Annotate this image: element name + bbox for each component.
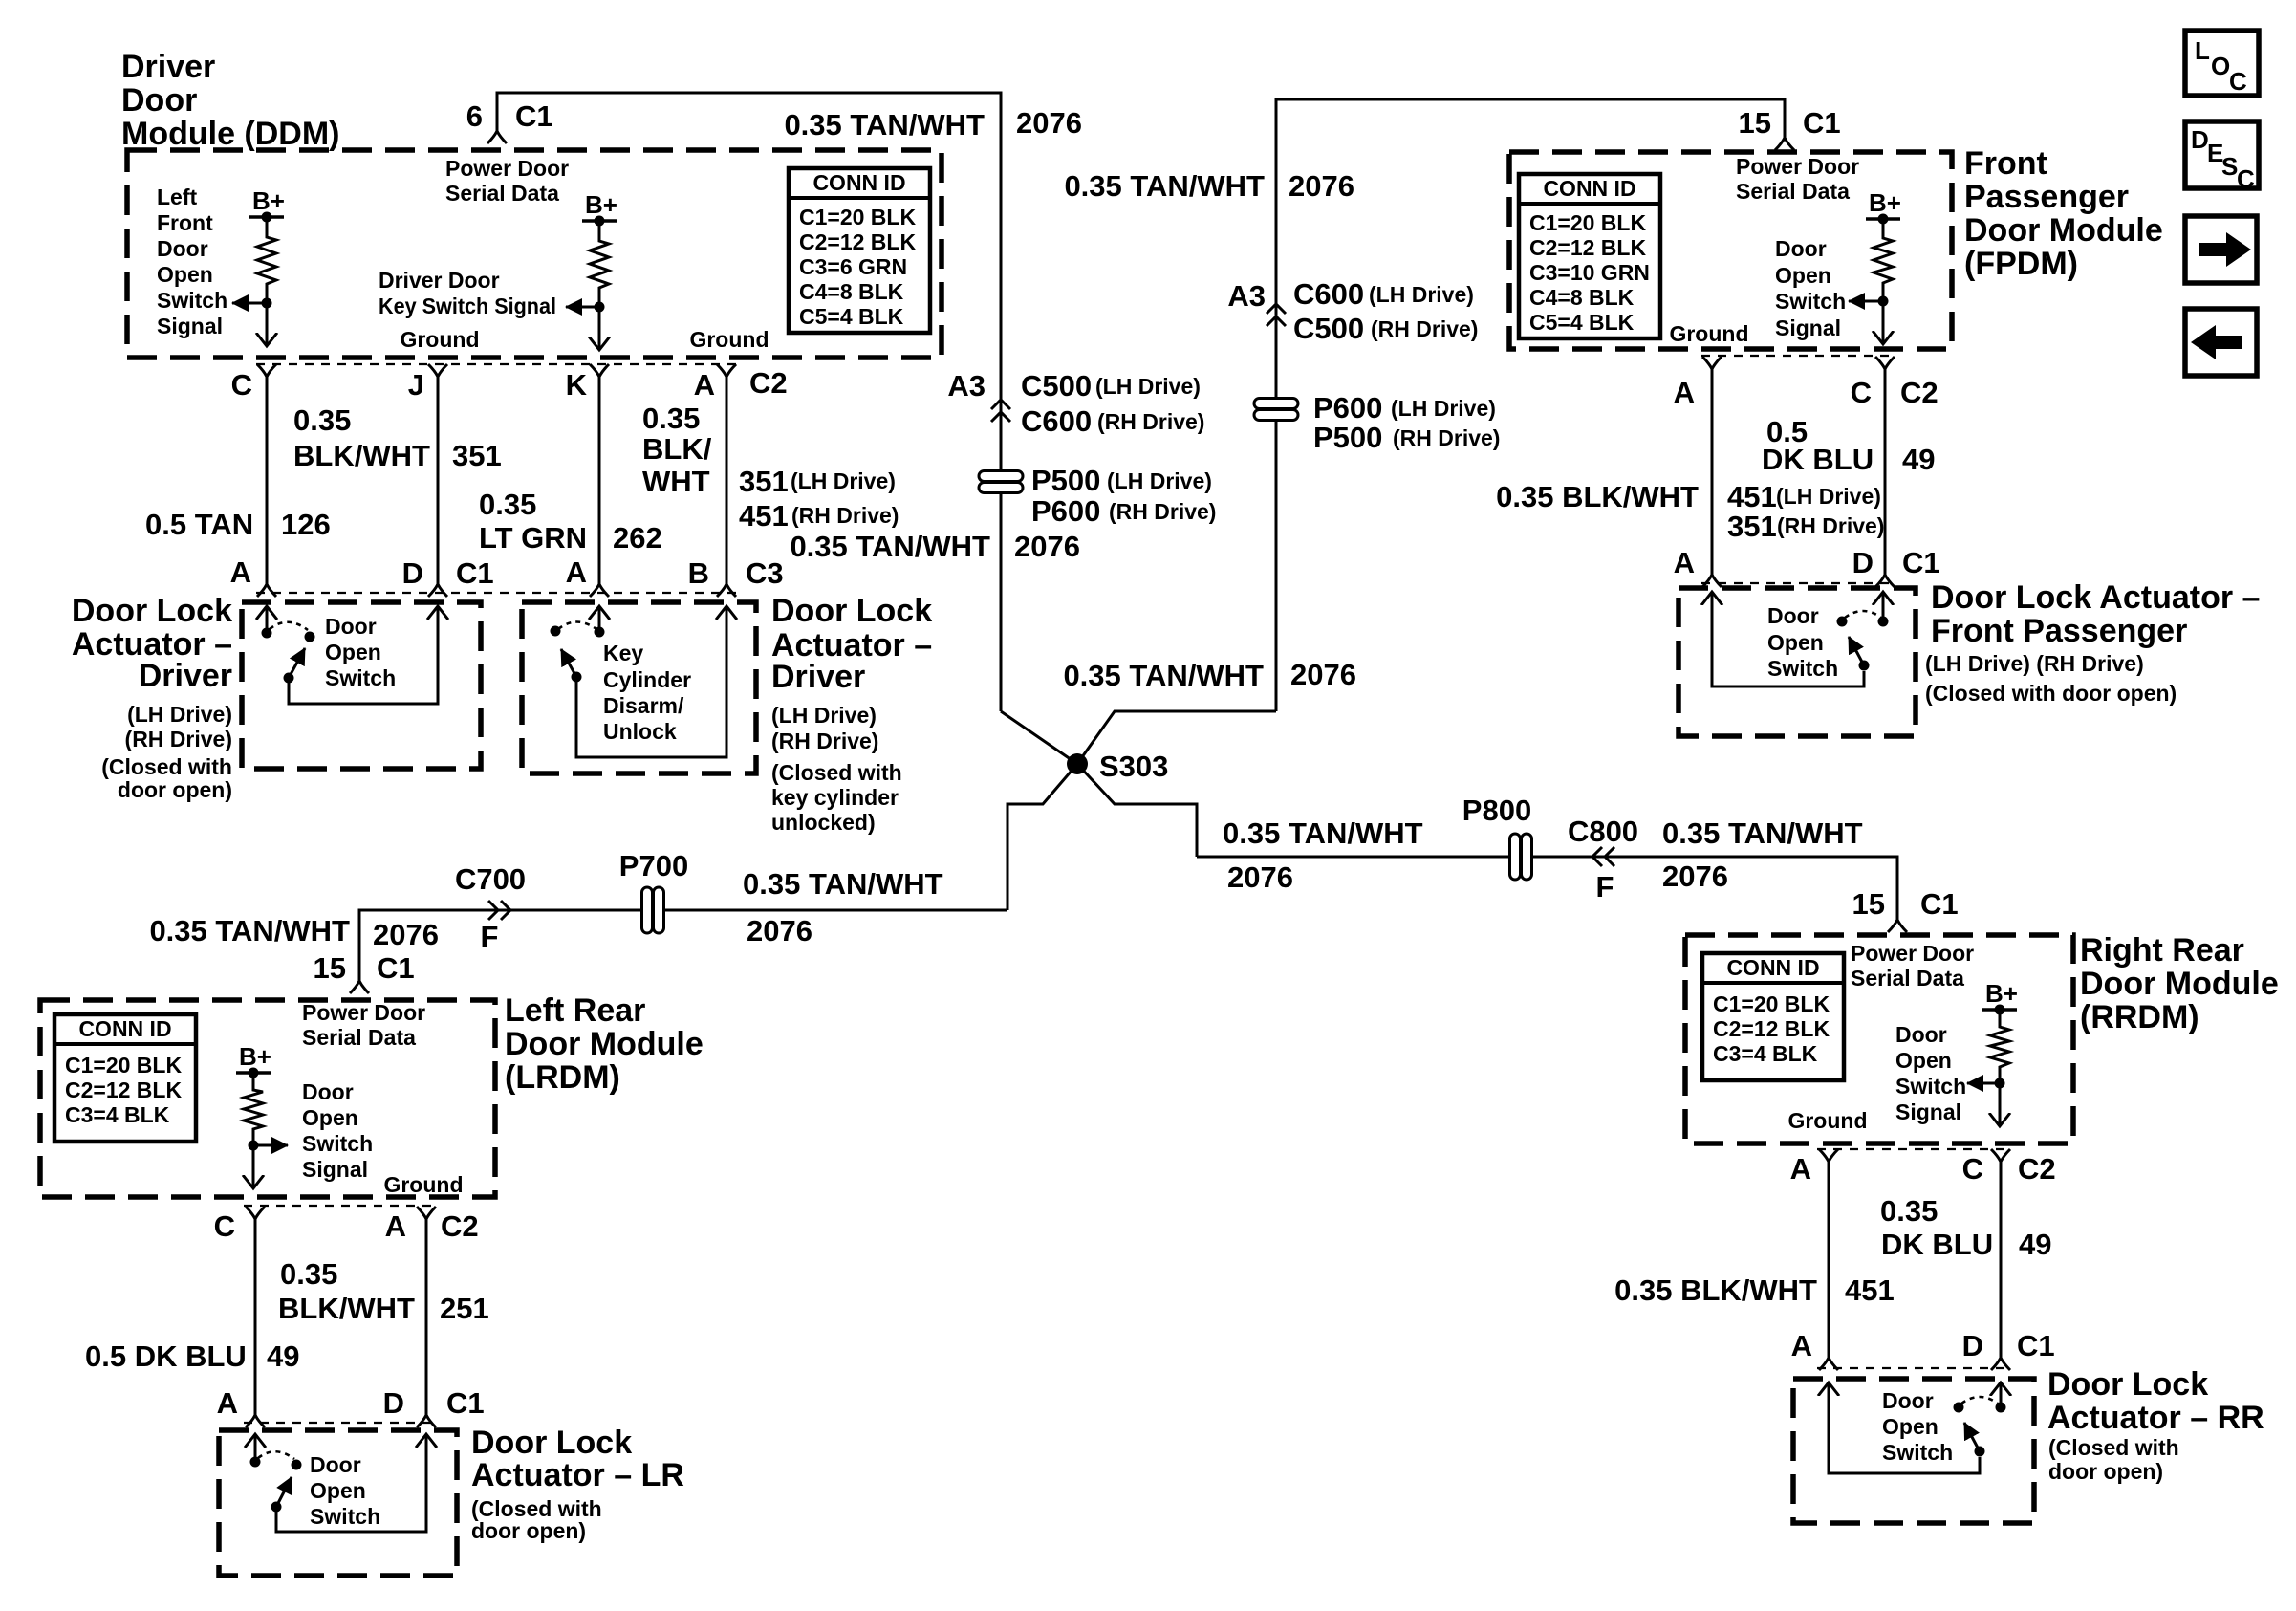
svg-text:0.35 TAN/WHT: 0.35 TAN/WHT (1223, 816, 1423, 850)
svg-text:CONN ID: CONN ID (1543, 176, 1635, 201)
B+ power symbol and pull-up resistor (DDM door open switch pull-up) (232, 186, 285, 346)
fork (top) at A-B (717, 364, 736, 377)
fork (bottom) at J-D (428, 584, 447, 597)
label: Driver Door Module (DDM) title (121, 49, 340, 152)
svg-text:351: 351 (739, 465, 789, 498)
svg-text:S303: S303 (1099, 750, 1168, 783)
svg-text:unlocked): unlocked) (771, 810, 876, 835)
wire: LRDM connector wire C-A x=267 (254, 1219, 257, 1415)
svg-text:351: 351 (452, 439, 502, 472)
svg-text:2076: 2076 (1014, 530, 1080, 563)
wire: FPDM pin 15 C1 serial data to S303 (1276, 99, 1785, 711)
connector fork at DDM pin 6 C1 (487, 131, 507, 143)
svg-text:Front: Front (1964, 145, 2047, 182)
svg-text:0.35 TAN/WHT: 0.35 TAN/WHT (790, 530, 990, 563)
svg-text:Door Module: Door Module (2080, 966, 2279, 1002)
svg-text:Unlock: Unlock (603, 719, 677, 744)
svg-text:O: O (2211, 52, 2230, 80)
label: Front Passenger Door Module (FPDM) title (1964, 145, 2163, 282)
module FPDM: Front Passenger Door Module dashed box (1509, 152, 1952, 349)
fork (bottom) at K-A (590, 584, 609, 597)
svg-text:C5=4 BLK: C5=4 BLK (799, 304, 904, 329)
svg-text:C3=4 BLK: C3=4 BLK (65, 1102, 170, 1127)
svg-text:49: 49 (267, 1339, 299, 1373)
connector region (FPDM C1/C2) fine dashed lines (1701, 356, 1896, 583)
svg-text:C: C (1962, 1152, 1983, 1186)
svg-text:D: D (1852, 546, 1874, 579)
svg-text:C1: C1 (1902, 546, 1940, 579)
svg-text:C1=20 BLK: C1=20 BLK (65, 1053, 182, 1078)
label: (LH Drive)(RH Drive)(Closed with key cylinder unlocked) (771, 703, 902, 835)
module LRDM: Left Rear Door Module dashed box (40, 1000, 495, 1197)
label: Door Open Switch Signal (RRDM) (1895, 1022, 1966, 1124)
LOC legend box (2185, 31, 2259, 96)
svg-text:0.35 TAN/WHT: 0.35 TAN/WHT (149, 914, 350, 947)
in-line connector P500/P600 grommet symbol (left wire) (979, 471, 1023, 493)
fork (top) at C-A (257, 364, 276, 377)
svg-text:Door: Door (1882, 1388, 1934, 1413)
svg-text:door open): door open) (2048, 1459, 2163, 1484)
svg-text:DK BLU: DK BLU (1881, 1228, 1993, 1261)
svg-text:126: 126 (281, 508, 331, 541)
svg-text:Switch: Switch (310, 1504, 380, 1529)
svg-text:Serial Data: Serial Data (1851, 966, 1964, 991)
svg-text:A: A (694, 368, 715, 402)
svg-text:Front Passenger: Front Passenger (1931, 613, 2187, 649)
svg-text:C: C (231, 368, 252, 402)
label: Door Lock Actuator - Front Passenger title (1931, 579, 2260, 649)
svg-text:key cylinder: key cylinder (771, 785, 899, 810)
wire label 0.35 TAN/WHT 2076 (mid, near S303) (790, 530, 1080, 563)
svg-text:A: A (217, 1386, 238, 1420)
svg-text:451: 451 (739, 499, 789, 533)
wire: FPDM connector wire A-A x=1791 (1711, 369, 1714, 575)
svg-text:F: F (1596, 870, 1614, 903)
svg-text:Door: Door (157, 236, 208, 261)
svg-text:A: A (1791, 1329, 1812, 1362)
svg-text:C: C (214, 1209, 235, 1243)
label: Door Open Switch (FPDM actuator) (1767, 603, 1838, 681)
svg-text:C500: C500 (1293, 312, 1364, 345)
svg-text:(LRDM): (LRDM) (505, 1059, 620, 1096)
component: Door Lock Actuator - LR dashed box (219, 1430, 457, 1576)
svg-text:(LH Drive): (LH Drive) (1107, 468, 1212, 493)
svg-text:C5=4 BLK: C5=4 BLK (1529, 310, 1635, 335)
svg-text:Open: Open (157, 262, 213, 287)
svg-text:C2=12 BLK: C2=12 BLK (1713, 1016, 1830, 1041)
svg-text:A: A (230, 555, 251, 589)
connector region (DDM C1/C2/C3 in-line) fine dashed lines (256, 364, 738, 593)
svg-text:Switch: Switch (157, 288, 227, 313)
svg-text:Serial Data: Serial Data (1736, 179, 1850, 204)
label: (LH Drive)(RH Drive)(Closed with door open) (101, 702, 232, 802)
svg-text:Door Lock: Door Lock (471, 1425, 632, 1461)
connector label C600 (LH Drive) right (1293, 277, 1474, 311)
svg-text:Open: Open (1895, 1048, 1952, 1073)
svg-text:262: 262 (613, 521, 662, 555)
wire: FPDM connector wire C-D x=1972 (1884, 369, 1887, 575)
svg-text:A: A (1674, 546, 1695, 579)
svg-text:Driver: Driver (121, 49, 215, 85)
connector label P600 (LH Drive) right (1313, 391, 1496, 425)
svg-text:Power Door: Power Door (1736, 154, 1859, 179)
svg-text:CONN ID: CONN ID (78, 1016, 171, 1041)
in-line connector P700 grommet symbol (642, 887, 664, 933)
svg-text:C500: C500 (1021, 369, 1092, 403)
svg-text:0.35 TAN/WHT: 0.35 TAN/WHT (784, 108, 985, 142)
svg-text:2076: 2076 (1662, 860, 1728, 893)
wire: RRDM pin 15 C1 serial data to S303 via P800/C800 (1197, 857, 1897, 920)
svg-text:A: A (566, 555, 587, 589)
svg-text:Door Lock: Door Lock (72, 593, 232, 629)
circuit number 451 (RH Drive) (739, 499, 899, 533)
svg-text:(LH Drive) (RH Drive): (LH Drive) (RH Drive) (1925, 651, 2144, 676)
svg-text:Ground: Ground (400, 327, 479, 352)
CONN ID table (FPDM) (1519, 174, 1660, 338)
in-line connector C600/C500 chevrons (right wire) (1267, 304, 1286, 326)
door open switch (RR actuator) (1829, 1382, 2006, 1473)
circuit number 351 (RH Drive) FPDM (1727, 510, 1884, 543)
svg-text:2076: 2076 (1290, 658, 1356, 691)
svg-text:Left Rear: Left Rear (505, 992, 645, 1029)
svg-text:CONN ID: CONN ID (1726, 955, 1819, 980)
in-line connector P800 grommet symbol (1510, 834, 1532, 880)
svg-text:Door: Door (1895, 1022, 1947, 1047)
svg-text:(RH Drive): (RH Drive) (791, 503, 899, 528)
svg-text:Open: Open (1767, 630, 1824, 655)
svg-text:Door Module: Door Module (505, 1026, 704, 1062)
svg-text:C3=6 GRN: C3=6 GRN (799, 254, 907, 279)
svg-text:(RH Drive): (RH Drive) (1393, 425, 1500, 450)
svg-text:C600: C600 (1293, 277, 1364, 311)
svg-text:B+: B+ (585, 190, 617, 219)
svg-text:Ground: Ground (1787, 1108, 1867, 1133)
connector label P600 (RH Drive) (1031, 494, 1216, 528)
svg-text:J: J (408, 368, 424, 402)
svg-text:C1: C1 (515, 99, 553, 133)
svg-text:Switch: Switch (1882, 1440, 1953, 1465)
circuit number 451 (LH Drive) FPDM (1727, 480, 1881, 513)
svg-text:Door Lock Actuator –: Door Lock Actuator – (1931, 579, 2260, 616)
svg-text:Ground: Ground (1669, 321, 1748, 346)
door open switch (front passenger actuator) (1712, 592, 1889, 686)
B+ power symbol and pull-up resistor (LRDM door open switch pull-up) (236, 1042, 288, 1188)
svg-text:Switch: Switch (1775, 289, 1846, 314)
svg-text:C3=4 BLK: C3=4 BLK (1713, 1041, 1818, 1066)
svg-text:Disarm/: Disarm/ (603, 693, 684, 718)
fork (bottom) C-A (246, 1415, 265, 1427)
circuit number 351 (LH Drive) (739, 465, 896, 498)
svg-text:Switch: Switch (1767, 656, 1838, 681)
label: Right Rear Door Module (RRDM) title (2080, 932, 2279, 1035)
svg-text:Open: Open (310, 1478, 366, 1503)
svg-text:(RH Drive): (RH Drive) (125, 727, 232, 751)
fork (bottom) A-A (1702, 575, 1722, 587)
svg-text:D: D (402, 556, 423, 590)
svg-text:LT GRN: LT GRN (479, 521, 587, 555)
svg-text:C1: C1 (377, 951, 415, 985)
svg-text:(Closed with door open): (Closed with door open) (1925, 681, 2177, 706)
svg-text:CONN ID: CONN ID (812, 170, 905, 195)
label: Power Door Serial Data (DDM) (445, 156, 569, 206)
svg-text:0.35: 0.35 (280, 1257, 337, 1291)
svg-text:Open: Open (302, 1105, 358, 1130)
svg-text:Signal: Signal (157, 314, 223, 338)
fork (top) A-A (1702, 357, 1722, 369)
label: Power Door Serial Data (LRDM) (302, 1000, 425, 1050)
module DDM: Driver Door Module dashed box (127, 150, 942, 358)
svg-text:C1: C1 (1920, 887, 1959, 921)
fork (bottom) A-D (417, 1415, 436, 1427)
svg-text:B+: B+ (1869, 188, 1901, 217)
splice S303 junction legs (1001, 711, 1276, 910)
svg-text:Left: Left (157, 185, 198, 209)
svg-text:0.35 TAN/WHT: 0.35 TAN/WHT (743, 867, 943, 901)
fork (top) A-D (417, 1207, 436, 1219)
svg-text:0.5 TAN: 0.5 TAN (145, 508, 253, 541)
svg-text:D: D (1962, 1329, 1983, 1362)
svg-text:A: A (1790, 1152, 1811, 1186)
label: Left Rear Door Module (LRDM) title (505, 992, 704, 1096)
connector fork at LRDM pin 15 C1 (350, 981, 369, 993)
svg-text:251: 251 (440, 1292, 489, 1325)
svg-text:(RH Drive): (RH Drive) (1371, 316, 1478, 341)
svg-text:C1=20 BLK: C1=20 BLK (1713, 991, 1830, 1016)
svg-text:Door: Door (1767, 603, 1819, 628)
fork (bottom) A-A (1819, 1358, 1838, 1370)
DESC legend box (2185, 121, 2259, 193)
svg-text:D: D (2191, 125, 2209, 154)
svg-text:Key: Key (603, 641, 643, 665)
svg-text:P600: P600 (1031, 494, 1100, 528)
svg-text:(LH Drive): (LH Drive) (1369, 282, 1474, 307)
svg-text:C3=10 GRN: C3=10 GRN (1529, 260, 1650, 285)
svg-text:B+: B+ (252, 186, 285, 215)
fork (bottom) at A-B (717, 584, 736, 597)
svg-text:15: 15 (1852, 887, 1885, 921)
svg-text:Signal: Signal (1895, 1099, 1961, 1124)
svg-text:DK BLU: DK BLU (1762, 443, 1874, 476)
wire label 0.35 TAN/WHT 2076 (right of P700) (743, 867, 943, 947)
key cylinder disarm/unlock switch (551, 606, 727, 757)
connector label P500 (LH Drive) (1031, 464, 1212, 497)
wire: RRDM connector wire A-A x=1913 (1828, 1162, 1830, 1358)
svg-text:A3: A3 (1227, 279, 1266, 313)
svg-text:(LH Drive): (LH Drive) (771, 703, 877, 728)
label: Door Open Switch (driver actuator) (325, 614, 396, 690)
svg-text:C2=12 BLK: C2=12 BLK (1529, 235, 1646, 260)
svg-text:(LH Drive): (LH Drive) (1391, 396, 1496, 421)
svg-text:Driver: Driver (139, 658, 232, 694)
wire: LRDM pin 15 C1 serial data to S303 via C700/P700 (359, 910, 1007, 981)
svg-text:door open): door open) (118, 777, 232, 802)
svg-text:(Closed with: (Closed with (2048, 1435, 2179, 1460)
wire: DDM connector wire C-A x=279 (266, 377, 269, 584)
svg-text:(RH Drive): (RH Drive) (1109, 499, 1216, 524)
connector fork at FPDM pin 15 C1 (1775, 138, 1794, 150)
connector fork at RRDM pin 15 C1 (1888, 920, 1907, 932)
svg-text:P700: P700 (619, 849, 688, 882)
svg-text:0.35 TAN/WHT: 0.35 TAN/WHT (1662, 816, 1863, 850)
svg-text:451: 451 (1845, 1274, 1895, 1307)
B+ power symbol and pull-up resistor (FPDM door open switch pull-up) (1849, 188, 1901, 344)
svg-text:C2=12 BLK: C2=12 BLK (65, 1078, 182, 1102)
svg-text:C: C (1851, 376, 1872, 409)
fork (bottom) C-D (1991, 1358, 2010, 1370)
svg-text:2076: 2076 (1227, 860, 1293, 894)
wire label 0.35 TAN/WHT 2076 (FPDM serial) (1064, 169, 1354, 203)
in-line connector P600/P500 grommet symbol (right wire) (1254, 399, 1298, 421)
svg-text:Actuator – LR: Actuator – LR (471, 1457, 684, 1493)
label: Door Lock Actuator - RR title (2047, 1366, 2264, 1436)
svg-text:0.35 TAN/WHT: 0.35 TAN/WHT (1064, 169, 1265, 203)
svg-text:(RH Drive): (RH Drive) (1777, 513, 1884, 538)
svg-text:C600: C600 (1021, 404, 1092, 438)
door open switch (driver actuator) (262, 606, 439, 704)
label: Door Open Switch Signal (FPDM) (1775, 236, 1846, 340)
svg-text:P500: P500 (1313, 421, 1382, 454)
wire label 0.35 BLK/WHT (circuit 351/451) (642, 402, 712, 498)
label: Door Open Switch Signal (LRDM) (302, 1079, 373, 1182)
fork (top) C-D (1991, 1149, 2010, 1162)
svg-text:451: 451 (1727, 480, 1777, 513)
wire label 0.35 DK BLU (circuit 49 RRDM) (1880, 1194, 1993, 1261)
svg-text:Ground: Ground (383, 1172, 463, 1197)
svg-text:C1=20 BLK: C1=20 BLK (799, 205, 916, 229)
svg-text:6: 6 (466, 99, 483, 133)
svg-text:A: A (1674, 376, 1695, 409)
svg-text:Serial Data: Serial Data (445, 181, 559, 206)
svg-text:C2: C2 (1900, 376, 1939, 409)
wire: DDM connector wire J-D x=458 (437, 377, 440, 584)
svg-text:49: 49 (2019, 1228, 2051, 1261)
svg-text:0.35: 0.35 (1880, 1194, 1938, 1228)
svg-text:(RH Drive): (RH Drive) (771, 729, 878, 753)
label: (Closed with door open) RR (2048, 1435, 2179, 1484)
wire: DDM connector wire K-A x=627 (598, 377, 601, 584)
svg-text:C2=12 BLK: C2=12 BLK (799, 229, 916, 254)
label: (LH Drive)(RH Drive)(Closed with door open) FPDM (1925, 651, 2177, 706)
component: Door Lock Actuator - RR dashed box (1793, 1379, 2034, 1523)
svg-text:C: C (2237, 164, 2255, 193)
wire label 0.35 BLK/WHT (circuit 351) (293, 403, 430, 472)
svg-text:C4=8 BLK: C4=8 BLK (1529, 285, 1635, 310)
svg-text:Front: Front (157, 210, 213, 235)
svg-text:C: C (2229, 67, 2247, 96)
wire label 0.35 TAN/WHT 2076 (above S303 right branch) (1063, 658, 1356, 692)
svg-text:Open: Open (1775, 263, 1831, 288)
svg-text:C4=8 BLK: C4=8 BLK (799, 279, 904, 304)
fork (top) at J-D (428, 364, 447, 377)
svg-text:0.35 BLK/WHT: 0.35 BLK/WHT (1614, 1274, 1817, 1307)
svg-text:C2: C2 (441, 1209, 479, 1243)
wire label 0.35 TAN/WHT 2076 (left of P800) (1223, 816, 1423, 894)
svg-text:15: 15 (1739, 106, 1771, 140)
svg-text:C2: C2 (2018, 1152, 2056, 1186)
svg-text:Passenger: Passenger (1964, 179, 2129, 215)
svg-text:Door: Door (310, 1452, 361, 1477)
label: Door Lock Actuator - Driver title (72, 593, 232, 694)
svg-text:Power Door: Power Door (445, 156, 569, 181)
left-arrow legend box (2185, 309, 2257, 376)
svg-text:Signal: Signal (1775, 316, 1841, 340)
connector label C500 (LH Drive) (1021, 369, 1201, 403)
svg-text:D: D (383, 1386, 404, 1420)
svg-text:Door Lock: Door Lock (771, 593, 932, 629)
svg-text:(Closed with: (Closed with (771, 760, 902, 785)
fork (bottom) at C-A (257, 584, 276, 597)
svg-text:Door: Door (1775, 236, 1827, 261)
svg-text:0.35: 0.35 (293, 403, 351, 437)
svg-text:C1: C1 (1803, 106, 1841, 140)
svg-text:K: K (566, 368, 588, 402)
svg-text:Driver: Driver (771, 659, 865, 695)
CONN ID table (LRDM) (54, 1014, 196, 1142)
component: Door Lock Actuator - Driver (key cylinder switch) dashed box (522, 602, 756, 773)
fork (top) A-A (1819, 1149, 1838, 1162)
CONN ID table (RRDM) (1702, 953, 1844, 1080)
label: Power Door Serial Data (RRDM) (1851, 941, 1974, 991)
svg-text:Door Lock: Door Lock (2047, 1366, 2208, 1403)
right-arrow legend box (2185, 216, 2257, 283)
svg-text:0.35 BLK/WHT: 0.35 BLK/WHT (1496, 480, 1699, 513)
svg-text:Door: Door (302, 1079, 354, 1104)
B+ power symbol and pull-up resistor (RRDM door open switch pull-up) (1967, 979, 2018, 1126)
B+ power symbol and pull-up resistor (DDM key switch pull-up) (566, 190, 617, 350)
svg-text:Switch: Switch (302, 1131, 373, 1156)
svg-text:(LH Drive): (LH Drive) (1776, 484, 1881, 509)
svg-text:BLK/: BLK/ (642, 432, 712, 466)
component: Door Lock Actuator - Front Passenger dashed box (1679, 588, 1916, 736)
svg-text:(LH Drive): (LH Drive) (127, 702, 232, 727)
svg-text:Open: Open (325, 640, 381, 664)
label: (Closed with door open) LR (471, 1496, 602, 1543)
svg-text:2076: 2076 (1016, 106, 1082, 140)
svg-text:S: S (2221, 152, 2238, 181)
svg-text:P500: P500 (1031, 464, 1100, 497)
fork (bottom) C-D (1875, 575, 1895, 587)
svg-text:(LH Drive): (LH Drive) (1095, 374, 1201, 399)
svg-text:WHT: WHT (642, 465, 710, 498)
label: Door Lock Actuator - LR title (471, 1425, 684, 1493)
svg-text:L: L (2195, 36, 2210, 65)
wire: RRDM connector wire C-D x=2093 (2000, 1162, 2003, 1358)
fork (top) at K-A (590, 364, 609, 377)
svg-text:Door: Door (121, 82, 197, 119)
svg-text:Module (DDM): Module (DDM) (121, 116, 340, 152)
svg-text:C1=20 BLK: C1=20 BLK (1529, 210, 1646, 235)
svg-text:C800: C800 (1568, 815, 1638, 848)
svg-text:C3: C3 (746, 556, 784, 590)
svg-text:(FPDM): (FPDM) (1964, 246, 2078, 282)
svg-text:0.35: 0.35 (479, 488, 536, 521)
wire label 0.35 TAN/WHT 2076 (right of C800) (1662, 816, 1863, 893)
wire: LRDM connector wire A-D x=446 (425, 1219, 428, 1415)
connector region (RRDM C1/C2) fine dashed lines (1817, 1149, 2012, 1368)
in-line connector C800 chevrons (1592, 847, 1614, 866)
svg-text:A3: A3 (947, 369, 986, 403)
svg-text:door open): door open) (471, 1518, 586, 1543)
connector region (LRDM C1/C2) fine dashed lines (244, 1206, 438, 1423)
svg-text:C2: C2 (749, 366, 788, 400)
fork (top) C-D (1875, 357, 1895, 369)
svg-text:0.5 DK BLU: 0.5 DK BLU (85, 1339, 247, 1373)
svg-text:Key Switch Signal: Key Switch Signal (379, 294, 556, 318)
svg-text:Driver Door: Driver Door (379, 268, 500, 293)
svg-text:Switch: Switch (325, 665, 396, 690)
svg-text:C700: C700 (455, 862, 526, 896)
svg-text:351: 351 (1727, 510, 1777, 543)
